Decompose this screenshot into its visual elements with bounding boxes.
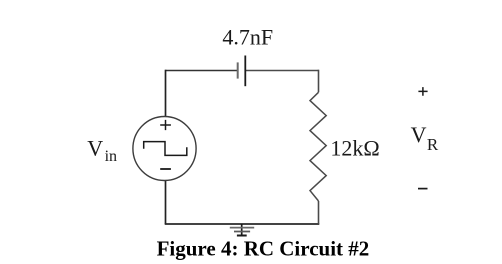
source minus mark: [160, 168, 171, 170]
svg-text:in: in: [105, 148, 117, 165]
wire top-right (capacitor to resistor branch): [245, 70, 318, 72]
ground bar 3: [237, 235, 247, 237]
svg-text:V: V: [411, 122, 427, 147]
VR plus mark: [418, 87, 427, 96]
svg-text:12kΩ: 12kΩ: [330, 136, 379, 161]
wire left lower (source to bottom wire): [165, 180, 167, 224]
svg-text:Figure 4: RC Circuit #2: Figure 4: RC Circuit #2: [157, 237, 370, 261]
svg-text:R: R: [427, 135, 439, 154]
wire right upper (to resistor): [318, 70, 320, 93]
VR minus mark: [418, 188, 428, 190]
wire right lower (resistor to bottom): [318, 201, 320, 224]
ground bar 2: [234, 231, 250, 233]
source Vin circle: [133, 117, 196, 181]
source square-wave symbol: [144, 142, 187, 156]
svg-text:4.7nF: 4.7nF: [222, 25, 273, 50]
ground stem: [241, 224, 243, 236]
wire bottom: [165, 223, 320, 225]
wire top-left (source to capacitor): [166, 70, 238, 72]
source plus mark: [160, 120, 171, 130]
svg-text:V: V: [87, 135, 103, 160]
capacitor C1 right plate: [244, 56, 246, 87]
resistor R1 zigzag: [310, 92, 326, 201]
ground bar 1: [230, 227, 254, 229]
wire left upper (top wire down to source): [165, 70, 167, 117]
capacitor C1 left plate: [237, 62, 239, 78]
